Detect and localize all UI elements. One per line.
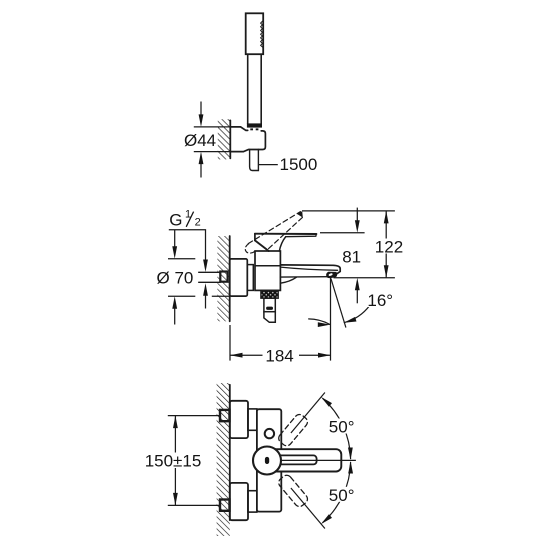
arc upper <box>323 398 351 459</box>
square bottom <box>220 500 230 511</box>
16deg left arc <box>308 319 330 325</box>
handle tube <box>247 54 249 123</box>
body <box>257 409 281 511</box>
d70 ext bottom right segment <box>212 295 230 297</box>
connector bottom <box>248 491 257 512</box>
wall hatch (bottom) <box>217 383 230 536</box>
122 dim line <box>385 211 387 278</box>
aerator <box>327 272 337 277</box>
label 16deg <box>367 293 397 308</box>
pivot mark <box>265 457 269 464</box>
label 150+-15 <box>143 453 206 469</box>
ext line lever-dashed top (122) <box>302 210 395 212</box>
escutcheon bottom <box>230 483 248 520</box>
dim arrows d44 <box>200 102 202 117</box>
lever <box>262 449 341 471</box>
svg-text:81: 81 <box>342 248 361 267</box>
label 50 upper <box>327 419 359 434</box>
label 122 <box>374 239 404 254</box>
svg-text:2: 2 <box>195 217 201 229</box>
knurled ring <box>261 290 278 298</box>
dashed raised lever line B <box>268 217 303 249</box>
lower knob <box>264 312 275 323</box>
spray zigzag <box>261 21 263 47</box>
G1/2 leader <box>169 230 206 261</box>
nut band <box>247 123 262 127</box>
G1/2 lower arrow tail <box>205 295 207 309</box>
dashed lever upper <box>277 412 310 447</box>
dashed raised lever line A <box>248 212 300 244</box>
diverter slot <box>266 307 273 310</box>
16deg right arc <box>344 306 370 323</box>
ext line top (d44) <box>194 126 231 128</box>
pivot circle <box>253 447 281 475</box>
16deg vertical ray / 184 right ext <box>330 278 332 361</box>
svg-text:150±15: 150±15 <box>145 451 202 470</box>
ext line bottom (d44) <box>194 151 231 153</box>
label 184 <box>263 348 300 363</box>
body joint line <box>255 265 280 267</box>
diverter housing <box>264 298 275 312</box>
connector top <box>248 409 257 430</box>
escutcheon <box>230 259 248 296</box>
wall face (middle) <box>229 236 231 321</box>
81 dim bottom tail <box>356 289 358 303</box>
lever tip underside <box>286 234 317 237</box>
dashed raised lever cap <box>245 244 256 253</box>
body <box>255 251 280 290</box>
spout bottom edge <box>280 276 328 278</box>
dims of bottom view <box>168 393 356 529</box>
label 50 lower <box>327 487 359 502</box>
svg-text:50°: 50° <box>329 418 355 437</box>
supply pipe lines <box>199 271 221 273</box>
d70 ext bottom <box>168 295 195 297</box>
lever centerline <box>282 459 356 461</box>
svg-text:1500: 1500 <box>280 155 318 174</box>
arrows bottom view <box>319 395 332 407</box>
lever left edge <box>254 234 256 241</box>
150 ext top <box>168 415 219 417</box>
spout lower fillet <box>280 277 296 283</box>
dome diagonal <box>255 240 269 251</box>
d70 top arrow tail <box>174 230 176 248</box>
small circle <box>265 429 274 438</box>
svg-text:Ø 70: Ø 70 <box>157 268 194 287</box>
svg-text:16°: 16° <box>367 291 393 310</box>
ext line lever top (81) <box>320 232 365 234</box>
label G 1/2 <box>169 208 201 229</box>
150 dim line <box>174 416 176 506</box>
arrows middle <box>203 260 208 273</box>
spout inner top line <box>280 267 337 270</box>
wall face (top) <box>229 120 231 158</box>
dashed lever lower <box>277 473 310 508</box>
holder <box>230 127 265 152</box>
184 dim line <box>230 354 331 356</box>
wall face (bottom) <box>229 385 231 520</box>
hose <box>250 150 259 171</box>
svg-text:50°: 50° <box>329 486 355 505</box>
ext line spout outlet <box>334 277 395 279</box>
wall hatch (middle) <box>217 236 229 321</box>
escutcheon top <box>230 401 248 438</box>
shower head <box>246 13 264 54</box>
81 dim top tail <box>356 208 358 222</box>
connector <box>247 265 253 291</box>
lever neck right edge <box>279 237 285 251</box>
square top <box>220 410 230 421</box>
raised lever tip <box>297 211 303 217</box>
d70 bottom arrow tail <box>174 308 176 325</box>
lever top edge <box>255 233 317 235</box>
dims of top view <box>194 102 278 178</box>
svg-text:G: G <box>169 211 182 230</box>
svg-text:184: 184 <box>265 346 293 365</box>
union nipple square <box>220 272 227 282</box>
arc lower <box>323 462 351 523</box>
clamp dots <box>250 128 253 130</box>
184 left ext <box>229 325 231 361</box>
spout outer top and tip <box>280 265 340 274</box>
wall hatch (top) <box>218 119 231 159</box>
dims of middle view <box>168 208 395 361</box>
svg-text:122: 122 <box>375 237 403 256</box>
lever inner outline <box>270 455 317 464</box>
16deg slant ray <box>331 278 346 327</box>
svg-text:Ø44: Ø44 <box>184 131 216 150</box>
ray lower 50 <box>291 488 325 529</box>
ray upper 50 <box>291 393 325 434</box>
d70 ext top <box>168 258 195 260</box>
leader 1500 <box>258 164 277 166</box>
150 ext bottom <box>168 504 219 506</box>
